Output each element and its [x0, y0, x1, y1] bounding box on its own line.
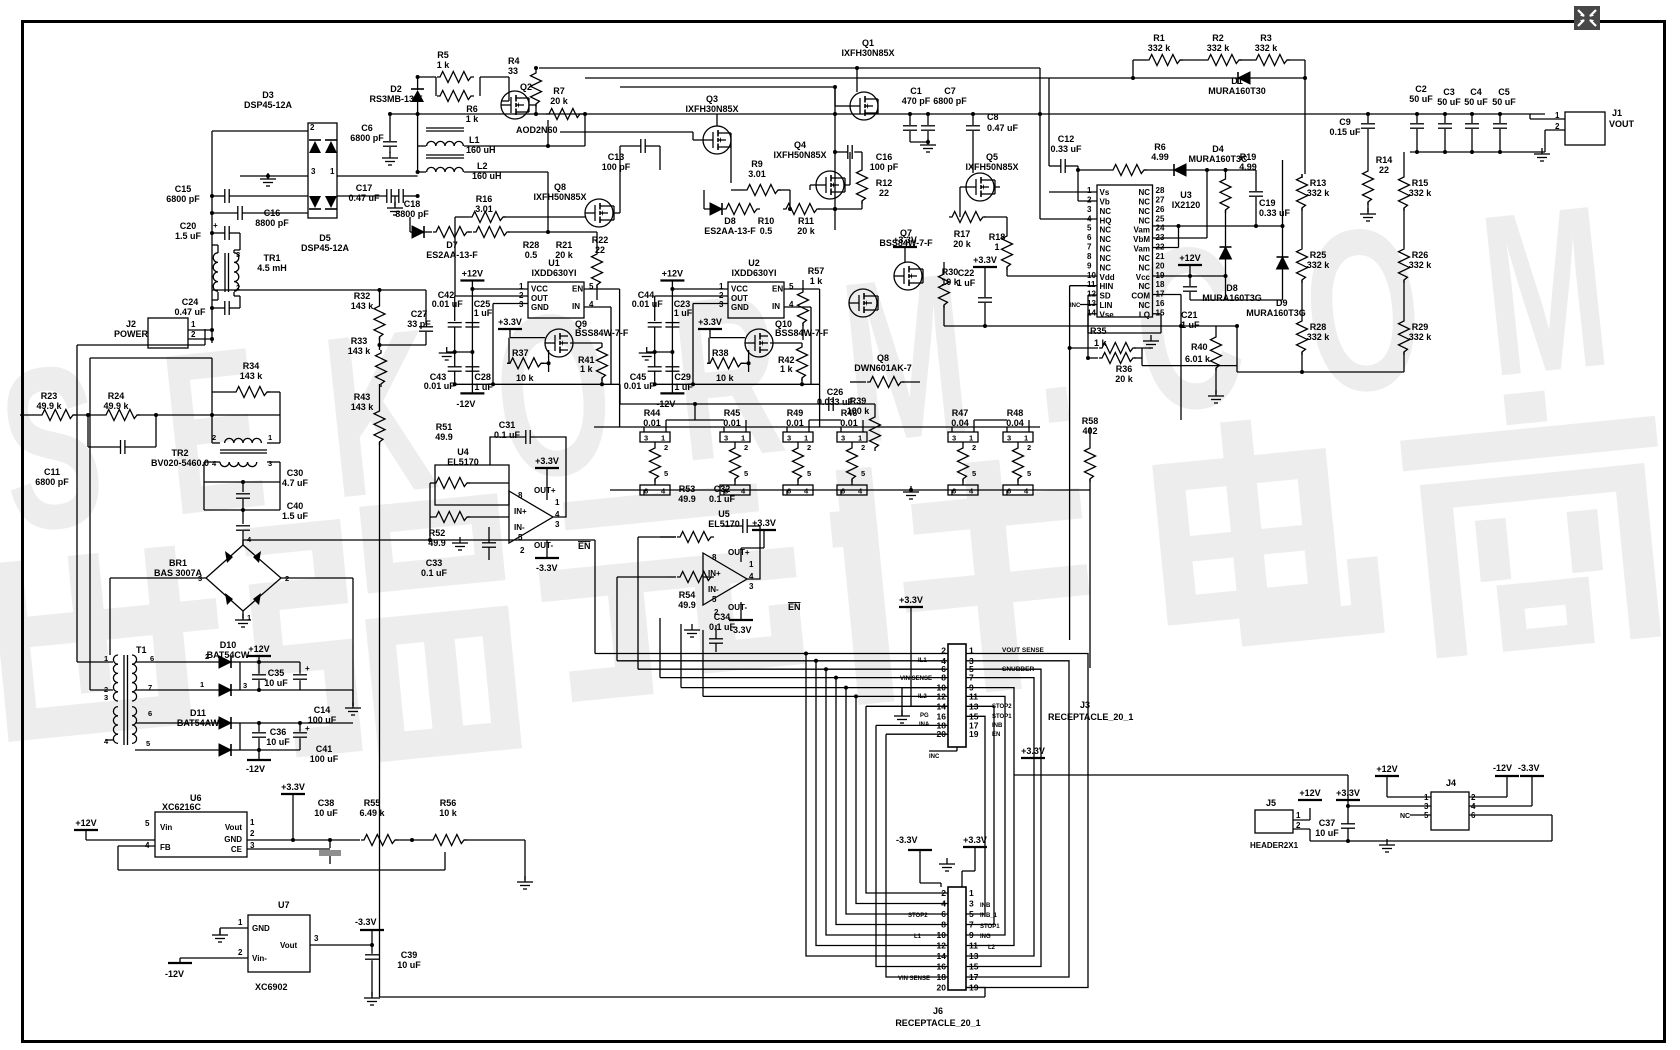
svg-text:ES2AA-13-F: ES2AA-13-F	[426, 250, 478, 260]
wire bus y78	[585, 77, 1049, 79]
resistor R30	[939, 271, 950, 308]
svg-text:STOP2: STOP2	[992, 704, 1012, 710]
svg-text:15: 15	[1156, 308, 1165, 317]
diode D4	[1174, 164, 1186, 176]
svg-text:C9: C9	[1339, 117, 1351, 127]
ground R14	[1367, 208, 1369, 214]
svg-text:C14: C14	[314, 705, 331, 715]
svg-text:1: 1	[250, 818, 255, 827]
svg-text:2: 2	[212, 433, 216, 442]
op-amp U5	[703, 553, 747, 605]
svg-text:0.47 uF: 0.47 uF	[348, 193, 380, 203]
svg-text:3: 3	[311, 167, 316, 176]
svg-text:8: 8	[518, 491, 523, 500]
svg-text:VbM: VbM	[1133, 235, 1150, 244]
svg-text:3: 3	[644, 434, 648, 443]
svg-text:3: 3	[841, 434, 845, 443]
svg-text:50 uF: 50 uF	[1409, 94, 1433, 104]
svg-text:SD: SD	[1100, 292, 1111, 301]
svg-text:3: 3	[749, 582, 754, 591]
ground D3	[267, 173, 269, 179]
svg-text:NC: NC	[1138, 254, 1150, 263]
svg-text:8800 pF: 8800 pF	[255, 218, 289, 228]
svg-text:21: 21	[1156, 252, 1165, 261]
svg-text:R16: R16	[476, 194, 493, 204]
wire j2 rail2	[90, 357, 212, 359]
svg-text:C12: C12	[1058, 134, 1075, 144]
svg-text:1: 1	[238, 918, 243, 927]
svg-text:143 k: 143 k	[240, 371, 264, 381]
capacitor C16	[847, 145, 849, 159]
svg-text:100 pF: 100 pF	[602, 162, 631, 172]
svg-text:Vs: Vs	[1100, 188, 1110, 197]
svg-text:-12V: -12V	[456, 399, 475, 409]
svg-text:NC: NC	[1100, 226, 1112, 235]
IC U3	[1097, 185, 1153, 317]
svg-text:6.01 k: 6.01 k	[1185, 354, 1211, 364]
wire j4 pin5	[1410, 814, 1431, 816]
svg-text:L2: L2	[477, 161, 488, 171]
svg-text:Vout: Vout	[225, 823, 243, 832]
svg-text:Vam: Vam	[1134, 226, 1150, 235]
svg-text:50 uF: 50 uF	[1464, 97, 1488, 107]
svg-text:+12V: +12V	[75, 818, 96, 828]
inductor L2	[427, 167, 464, 172]
wire pin19	[1153, 275, 1226, 277]
svg-text:0.1 uF: 0.1 uF	[421, 568, 448, 578]
svg-text:C19: C19	[1259, 198, 1276, 208]
transistor Q3	[703, 126, 731, 154]
svg-text:4.7 uF: 4.7 uF	[282, 478, 309, 488]
svg-text:C16: C16	[264, 208, 281, 218]
svg-text:6800 pF: 6800 pF	[166, 194, 200, 204]
svg-text:R13: R13	[1310, 178, 1327, 188]
svg-text:R38: R38	[712, 348, 729, 358]
svg-text:R33: R33	[351, 336, 368, 346]
svg-text:NC: NC	[1138, 207, 1150, 216]
svg-text:2: 2	[520, 546, 525, 555]
svg-text:NC: NC	[1138, 216, 1150, 225]
svg-text:BV020-5460.0: BV020-5460.0	[151, 458, 209, 468]
svg-text:Q3: Q3	[706, 94, 718, 104]
resistor R53	[677, 532, 714, 543]
resistor R15	[1399, 174, 1410, 211]
capacitor C13	[640, 139, 642, 153]
svg-text:C27: C27	[411, 309, 428, 319]
IC U7	[248, 915, 310, 972]
wire com	[1153, 294, 1182, 296]
svg-text:RS3MB-13-F: RS3MB-13-F	[369, 94, 423, 104]
capacitor C15	[224, 189, 226, 203]
svg-text:+3.3V: +3.3V	[281, 782, 305, 792]
svg-text:0.5: 0.5	[760, 226, 773, 236]
svg-text:J6: J6	[933, 1006, 943, 1016]
svg-text:MURA160T30: MURA160T30	[1208, 86, 1266, 96]
capacitor C35	[258, 662, 260, 674]
transistor Q7	[894, 262, 922, 290]
svg-text:+3.3V: +3.3V	[899, 595, 923, 605]
svg-text:COM: COM	[1131, 292, 1150, 301]
svg-text:143 k: 143 k	[348, 346, 372, 356]
wire c37 bottom	[1310, 840, 1387, 842]
svg-text:C24: C24	[182, 297, 199, 307]
svg-text:1: 1	[247, 613, 251, 622]
svg-text:OUT: OUT	[531, 294, 548, 303]
capacitor C19	[1255, 170, 1257, 191]
wire x212 down	[211, 358, 213, 443]
svg-text:2: 2	[238, 948, 243, 957]
ground R40	[1215, 390, 1217, 396]
svg-text:Vam: Vam	[1134, 245, 1150, 254]
svg-text:Q5: Q5	[986, 152, 998, 162]
svg-text:6800 pF: 6800 pF	[35, 477, 69, 487]
svg-text:D8: D8	[724, 216, 736, 226]
resistor R40	[1211, 334, 1222, 371]
capacitor C22	[984, 280, 986, 297]
svg-text:20 k: 20 k	[550, 96, 569, 106]
svg-text:1 uF: 1 uF	[474, 382, 493, 392]
capacitor C36	[258, 723, 260, 732]
svg-text:5: 5	[712, 595, 717, 604]
svg-text:C41: C41	[316, 744, 333, 754]
connector J2	[148, 318, 188, 348]
svg-text:2: 2	[205, 652, 209, 661]
svg-text:C26: C26	[827, 387, 844, 397]
collapse icon	[1574, 6, 1600, 30]
svg-text:IN: IN	[772, 302, 780, 311]
svg-text:U5: U5	[718, 509, 730, 519]
svg-text:24: 24	[1156, 224, 1165, 233]
svg-text:27: 27	[1156, 195, 1165, 204]
capacitor C1	[909, 114, 911, 125]
capacitor C12	[1060, 159, 1062, 173]
svg-text:1 k: 1 k	[780, 364, 794, 374]
svg-text:R36: R36	[1116, 364, 1133, 374]
transistor Q2	[501, 91, 529, 119]
capacitor C14	[299, 662, 301, 674]
svg-text:22: 22	[595, 245, 605, 255]
svg-text:Vse: Vse	[1100, 310, 1115, 319]
svg-text:C34: C34	[714, 612, 731, 622]
IC U6	[155, 812, 247, 857]
svg-text:IX2120: IX2120	[1172, 200, 1201, 210]
svg-text:XC6216C: XC6216C	[162, 802, 202, 812]
svg-text:BR1: BR1	[169, 558, 187, 568]
op-amp U4	[509, 491, 553, 543]
wire r40 top	[944, 325, 1237, 327]
svg-text:5: 5	[861, 469, 865, 478]
capacitor C24	[224, 301, 226, 315]
svg-text:C3: C3	[1443, 87, 1455, 97]
resistor R33	[376, 350, 387, 387]
capacitor C16b	[237, 206, 239, 220]
svg-text:-12V: -12V	[246, 764, 265, 774]
svg-text:1 uF: 1 uF	[674, 382, 693, 392]
svg-text:5: 5	[807, 469, 811, 478]
svg-text:+12V: +12V	[462, 269, 483, 279]
svg-text:U3: U3	[1180, 190, 1192, 200]
svg-text:R35: R35	[1090, 326, 1107, 336]
svg-text:50 uF: 50 uF	[1437, 97, 1461, 107]
svg-text:-3.3V: -3.3V	[1518, 763, 1540, 773]
watermark 世强元件电商	[0, 380, 1676, 801]
resistor R13	[1297, 174, 1308, 211]
svg-text:1: 1	[858, 434, 862, 443]
svg-text:4.99: 4.99	[1239, 162, 1257, 172]
svg-text:1 k: 1 k	[810, 276, 824, 286]
svg-text:BSS84W-7-F: BSS84W-7-F	[879, 238, 933, 248]
svg-text:3: 3	[969, 899, 974, 909]
svg-text:R22: R22	[592, 235, 609, 245]
svg-text:332 k: 332 k	[1409, 332, 1433, 342]
svg-text:R5: R5	[437, 50, 449, 60]
svg-text:C35: C35	[268, 668, 285, 678]
svg-text:+3.3V: +3.3V	[1336, 788, 1360, 798]
svg-text:J2: J2	[126, 319, 136, 329]
svg-text:2: 2	[1027, 443, 1031, 452]
capacitor C8	[972, 114, 974, 125]
svg-text:IXFH50N85X: IXFH50N85X	[773, 150, 826, 160]
wire x835	[834, 87, 836, 230]
svg-text:28: 28	[1156, 186, 1165, 195]
diode D7	[412, 226, 424, 238]
pwr -3.3V U5	[740, 602, 742, 620]
svg-text:6.49 k: 6.49 k	[359, 808, 385, 818]
ground J1	[1541, 148, 1543, 154]
wire main bus y114	[390, 113, 1545, 115]
svg-text:R29: R29	[1412, 322, 1429, 332]
transistor Q5	[966, 173, 994, 201]
svg-text:49.9 k: 49.9 k	[103, 401, 129, 411]
diode D2	[417, 77, 419, 90]
ground C34	[691, 624, 693, 630]
svg-text:OUT-: OUT-	[728, 603, 747, 612]
diode D11	[219, 717, 231, 729]
svg-text:R7: R7	[553, 86, 565, 96]
wire y132	[560, 131, 693, 133]
svg-text:R45: R45	[724, 408, 741, 418]
svg-text:J5: J5	[1266, 798, 1276, 808]
capacitor C2	[1416, 114, 1418, 123]
diode D10	[219, 656, 231, 668]
wire u5 loops	[747, 526, 760, 579]
svg-text:Vcc: Vcc	[1136, 273, 1151, 282]
wire br1 right	[281, 577, 353, 579]
svg-text:-3.3V: -3.3V	[536, 563, 558, 573]
svg-text:1 k: 1 k	[437, 60, 451, 70]
svg-text:100 pF: 100 pF	[870, 162, 899, 172]
wire r36 right	[1141, 358, 1143, 366]
svg-text:143 k: 143 k	[351, 402, 375, 412]
resistor R51	[433, 478, 470, 489]
svg-text:10 k: 10 k	[439, 808, 458, 818]
svg-text:4.5 mH: 4.5 mH	[257, 263, 287, 273]
wire x1049 down	[1048, 78, 1050, 166]
inductor L1	[427, 141, 464, 146]
svg-text:11: 11	[1087, 280, 1096, 289]
svg-text:C4: C4	[1470, 87, 1482, 97]
svg-text:U2: U2	[748, 258, 760, 268]
resistor R35	[1099, 343, 1136, 354]
diode D8a	[710, 203, 722, 215]
capacitor C7	[927, 114, 929, 125]
svg-text:Q7: Q7	[900, 228, 912, 238]
wire u7 out	[310, 944, 372, 946]
resistor R43	[374, 408, 385, 445]
capacitor C41	[299, 723, 301, 732]
svg-text:1: 1	[969, 888, 974, 898]
svg-text:26: 26	[1156, 205, 1165, 214]
svg-text:C8: C8	[987, 112, 999, 122]
capacitor C6	[389, 114, 391, 141]
ground BR1	[242, 611, 244, 618]
resistor R26	[1399, 246, 1410, 283]
svg-text:22: 22	[879, 188, 889, 198]
svg-text:R18: R18	[989, 232, 1006, 242]
svg-text:IXDD630YI: IXDD630YI	[731, 268, 776, 278]
svg-text:5: 5	[518, 533, 523, 542]
svg-text:HQ: HQ	[1100, 216, 1112, 225]
svg-text:VOUT: VOUT	[1609, 119, 1635, 129]
svg-text:3: 3	[519, 300, 524, 309]
wire sense top bus	[594, 426, 1040, 428]
svg-text:3: 3	[724, 434, 728, 443]
ground C18	[394, 202, 396, 208]
svg-text:1 k: 1 k	[466, 114, 480, 124]
svg-text:MURA160T3G: MURA160T3G	[1246, 308, 1306, 318]
svg-text:3.01: 3.01	[475, 204, 493, 214]
svg-text:C40: C40	[287, 501, 304, 511]
svg-text:+12V: +12V	[248, 644, 269, 654]
svg-text:R43: R43	[354, 392, 371, 402]
svg-text:Vin-: Vin-	[252, 954, 267, 963]
svg-text:EL5170: EL5170	[708, 519, 740, 529]
svg-text:C17: C17	[356, 183, 373, 193]
svg-text:3: 3	[555, 520, 560, 529]
svg-text:5: 5	[145, 819, 150, 828]
wire j3 to j4	[1014, 774, 1348, 776]
svg-text:3: 3	[314, 934, 319, 943]
svg-text:LQ: LQ	[1139, 310, 1150, 319]
svg-text:D5: D5	[319, 233, 331, 243]
svg-text:R57: R57	[808, 266, 825, 276]
wire sense bus	[610, 489, 1090, 491]
ground t1	[352, 702, 354, 708]
svg-text:19: 19	[1156, 271, 1165, 280]
svg-text:XC6902: XC6902	[255, 982, 288, 992]
svg-text:TR1: TR1	[263, 253, 280, 263]
svg-text:20: 20	[937, 983, 947, 993]
svg-text:R51: R51	[436, 422, 453, 432]
svg-text:R19: R19	[1240, 152, 1257, 162]
svg-text:R40: R40	[1191, 342, 1208, 352]
svg-text:R3: R3	[1260, 33, 1272, 43]
capacitor C20	[224, 226, 226, 240]
capacitor C38	[329, 840, 331, 848]
svg-text:STOP1: STOP1	[992, 714, 1012, 720]
svg-text:332 k: 332 k	[1255, 43, 1279, 53]
svg-text:C36: C36	[270, 727, 287, 737]
svg-text:Q2: Q2	[520, 82, 532, 92]
svg-text:NC: NC	[1138, 282, 1150, 291]
svg-text:R49: R49	[787, 408, 804, 418]
svg-text:R52: R52	[429, 528, 446, 538]
wire y404	[620, 403, 875, 405]
svg-text:C39: C39	[401, 950, 418, 960]
svg-text:1: 1	[661, 434, 665, 443]
resistor R19	[1220, 176, 1231, 213]
wire pin23	[1153, 237, 1208, 239]
svg-text:10 uF: 10 uF	[266, 737, 290, 747]
resistor R34	[233, 387, 270, 398]
capacitor C17	[337, 195, 387, 197]
wire cols bottom	[1237, 371, 1404, 373]
svg-text:332 k: 332 k	[1307, 260, 1331, 270]
wire D3 right	[337, 175, 418, 177]
wire br1 left	[110, 577, 206, 579]
svg-text:IN-: IN-	[514, 523, 525, 532]
wire j4 pin3	[1348, 805, 1431, 807]
wire d8d9 bottom	[1190, 299, 1283, 301]
svg-text:ES2AA-13-F: ES2AA-13-F	[704, 226, 756, 236]
svg-text:R37: R37	[512, 348, 529, 358]
svg-text:R56: R56	[440, 798, 457, 808]
svg-text:2: 2	[310, 123, 315, 132]
wire x1040	[1039, 68, 1041, 219]
svg-text:GND: GND	[531, 303, 549, 312]
svg-text:20 k: 20 k	[953, 239, 972, 249]
transistor Q8	[585, 199, 613, 227]
svg-text:5: 5	[744, 469, 748, 478]
svg-text:C30: C30	[287, 468, 304, 478]
svg-text:+: +	[305, 724, 310, 733]
capacitor C32	[742, 519, 744, 533]
wire u6 gnd2	[247, 848, 330, 850]
svg-text:C28: C28	[474, 372, 491, 382]
svg-text:1: 1	[1024, 434, 1028, 443]
svg-text:1: 1	[268, 433, 272, 442]
wire y290	[212, 289, 426, 291]
svg-text:IN-: IN-	[708, 585, 719, 594]
svg-text:-12V: -12V	[1493, 763, 1512, 773]
svg-text:R14: R14	[1376, 155, 1393, 165]
svg-text:D7: D7	[446, 240, 458, 250]
pwr -12V J4	[1495, 775, 1519, 777]
svg-text:IN: IN	[572, 302, 580, 311]
resistor Q8b	[867, 377, 904, 388]
svg-text:20 k: 20 k	[1115, 374, 1134, 384]
capacitor C27	[425, 290, 427, 325]
svg-text:6: 6	[1087, 233, 1092, 242]
resistor R18	[1002, 233, 1013, 270]
wire L1 to R7	[548, 145, 585, 147]
pwr -12V U7	[168, 962, 192, 964]
svg-text:2: 2	[664, 443, 668, 452]
wire c14 gnd	[300, 689, 353, 691]
resistor R24	[103, 410, 140, 421]
svg-text:INC: INC	[1070, 303, 1081, 309]
pwr -3.3V U4	[546, 540, 548, 558]
svg-text:+12V: +12V	[1299, 788, 1320, 798]
svg-text:19: 19	[969, 729, 979, 739]
svg-text:3: 3	[1087, 205, 1092, 214]
resistor R1	[1146, 55, 1183, 66]
svg-text:470 pF: 470 pF	[902, 96, 931, 106]
svg-text:VCC: VCC	[531, 285, 548, 294]
svg-text:Q4: Q4	[794, 140, 806, 150]
svg-text:NC: NC	[1138, 263, 1150, 272]
svg-text:HIN: HIN	[1100, 282, 1114, 291]
